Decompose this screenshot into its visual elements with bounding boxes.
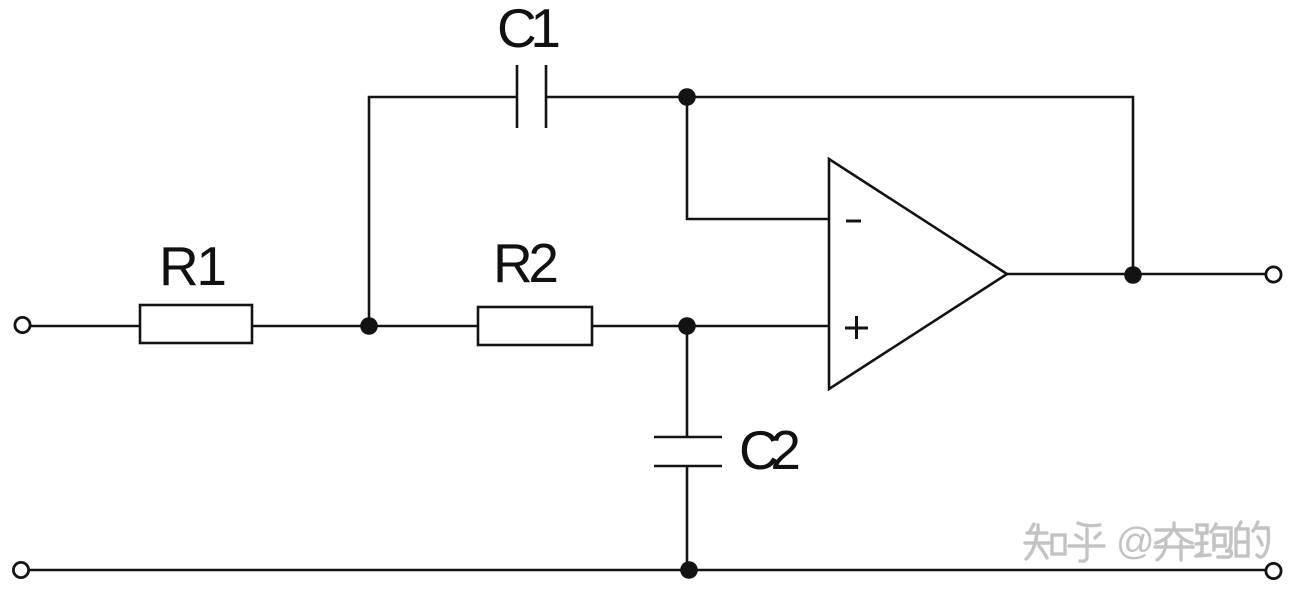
glyph 乎 — [1069, 523, 1104, 561]
wire: input to R1 — [30, 325, 140, 328]
wire: top feedback right segment — [546, 97, 1133, 275]
terminal: input — [15, 317, 30, 332]
junction: R2 out / C2 node — [678, 317, 696, 335]
wire: R2 to op-amp non-inverting input — [592, 325, 829, 328]
wire: node B down to C2 — [686, 326, 689, 437]
svg-text:C1: C1 — [497, 0, 561, 59]
wire: inverting input branch — [687, 97, 829, 219]
glyph 奔 — [1155, 523, 1193, 560]
terminal: output — [1266, 267, 1281, 282]
capacitor C1 left plate — [516, 65, 519, 128]
op-amp plus pin label — [845, 327, 868, 330]
glyph 跑 — [1196, 524, 1231, 557]
wire: R1 to R2 — [252, 325, 478, 328]
resistor R1 — [140, 305, 252, 343]
wire: C2 to ground rail — [686, 466, 689, 570]
junction: R1/R2/C1 node — [360, 317, 378, 335]
glyph 知 — [1025, 524, 1065, 559]
junction: C2 / ground rail — [680, 561, 698, 579]
svg-text:@: @ — [1116, 521, 1155, 563]
op-amp minus pin label — [846, 220, 861, 223]
svg-text:R1: R1 — [159, 235, 227, 297]
svg-text:R2: R2 — [493, 232, 559, 294]
terminal: ground right — [1266, 563, 1281, 578]
watermark 知乎 @奔跑的 — [1025, 522, 1269, 561]
capacitor C2 bottom plate — [654, 465, 722, 468]
wire: bottom ground rail — [29, 569, 1266, 572]
junction: C1 right / inverting branch — [678, 88, 696, 106]
op-amp U1 — [829, 159, 1007, 389]
svg-text:C2: C2 — [739, 419, 801, 481]
capacitor C2 top plate — [654, 436, 722, 439]
capacitor C1 right plate — [545, 65, 548, 128]
wire: op-amp output — [1007, 273, 1266, 276]
terminal: ground left — [13, 562, 28, 577]
wire: top feedback left segment — [369, 97, 517, 326]
glyph 的 — [1236, 522, 1269, 557]
resistor R2 — [478, 307, 592, 345]
junction: output / feedback — [1124, 266, 1142, 284]
